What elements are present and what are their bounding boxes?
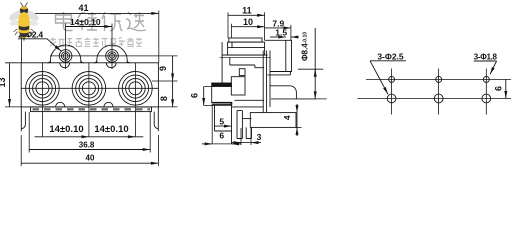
dim 13 ext lines <box>5 63 21 107</box>
dim 3 line <box>231 142 241 144</box>
shell bottom line <box>271 98 317 100</box>
jack J2 circles <box>72 72 106 106</box>
svg-text:41: 41 <box>78 3 88 13</box>
notch under ear right <box>106 63 116 68</box>
ear hole left <box>59 50 72 63</box>
mid body inner steps <box>222 55 268 68</box>
bottom bump left <box>56 102 65 107</box>
mounting ear dome right <box>97 45 127 63</box>
dim 14 bottom lines <box>42 136 89 138</box>
svg-text:6: 6 <box>494 86 504 91</box>
column centerlines <box>392 69 487 115</box>
dim 14 top line <box>66 26 112 28</box>
top tab <box>229 38 262 42</box>
front face lower <box>211 87 213 103</box>
right leg <box>154 107 158 131</box>
dim 41 line <box>21 12 158 14</box>
body bottom line <box>231 100 264 107</box>
svg-text:36.8: 36.8 <box>79 140 95 149</box>
svg-text:6: 6 <box>189 93 199 98</box>
small box on mid body <box>239 69 245 76</box>
notch under ear left <box>60 63 70 68</box>
front pin <box>237 111 242 139</box>
hole small 2 <box>436 76 442 82</box>
jack J3 circles <box>119 72 153 106</box>
dim 41 ext lines <box>21 10 158 62</box>
dim 36.8 ext lines <box>29 112 150 153</box>
body outline <box>21 63 158 107</box>
leg side outline <box>215 105 232 144</box>
dim 7.9 ext <box>290 25 292 40</box>
lower box <box>231 77 245 95</box>
mounting ear dome left <box>50 45 80 63</box>
dim 6 right line <box>505 79 507 98</box>
thick panel bar <box>212 83 232 87</box>
dim 8 line right <box>172 81 174 107</box>
hole small 3 <box>483 76 489 82</box>
dim 6 bottom line <box>202 143 212 145</box>
dim 6 left ext <box>204 87 212 106</box>
dim 9/8 ext lines <box>152 81 178 107</box>
svg-text:3: 3 <box>257 132 262 142</box>
barrel tip ring <box>285 40 287 71</box>
svg-text:14±0.10: 14±0.10 <box>70 17 101 27</box>
svg-text:13: 13 <box>0 77 7 87</box>
label 3-phi2.5 underline and leader <box>370 61 406 95</box>
watermark small text (vector strokes) <box>50 38 142 47</box>
dim 10 ext <box>230 24 232 38</box>
dim 1.5 line <box>270 36 286 38</box>
hole small 1 <box>389 76 395 82</box>
barrel rear ring <box>268 72 291 75</box>
dim phi8.4 arrow top <box>314 69 316 76</box>
dim 7.9 line <box>265 27 291 29</box>
svg-text:3-Φ2.5: 3-Φ2.5 <box>377 51 404 61</box>
upper body block <box>228 42 265 55</box>
svg-text:11: 11 <box>242 6 252 16</box>
watermark big text (vector strokes approximating CJK glyphs) <box>56 12 147 31</box>
bottom terminal strip <box>31 107 152 112</box>
top row line <box>366 78 511 80</box>
dim 14 top ext lines <box>66 24 112 46</box>
dim 11 ext <box>228 12 265 40</box>
flange plate verticals <box>263 51 270 113</box>
ear dome left feet <box>47 61 83 63</box>
side/right view dimension texts <box>189 6 503 143</box>
dim 1.5 right arrow <box>291 36 298 38</box>
dim 40 line <box>21 162 158 164</box>
dim 5 line <box>215 125 232 127</box>
rear terminal block <box>250 113 296 128</box>
horizontal centerline through jacks <box>21 87 158 89</box>
jack J1 vertical centerline <box>41 63 43 137</box>
label 3-phi1.8 underline and leader <box>474 61 497 74</box>
rear pin <box>246 127 251 138</box>
svg-text:40: 40 <box>86 154 95 163</box>
front view dimension texts <box>0 3 169 163</box>
leader 2-phi2.4 <box>18 39 61 52</box>
ear hole right <box>106 50 119 63</box>
jack J2 vertical centerline <box>88 63 90 137</box>
dim 13 line <box>9 63 11 106</box>
leg ext line <box>211 105 213 144</box>
terminal strip dashes <box>33 108 151 110</box>
ear hole right vertical centermark <box>111 46 113 70</box>
dim 4 line <box>296 104 298 113</box>
hole large 1 <box>387 94 396 103</box>
ear hole left vertical centermark <box>65 46 67 70</box>
dim 40 ext lines <box>21 135 158 166</box>
jack J1 circles <box>26 72 60 106</box>
svg-text:8: 8 <box>159 96 169 101</box>
hole large 3 <box>482 94 491 103</box>
svg-text:5: 5 <box>219 116 224 126</box>
jack J3 vertical centerline <box>134 63 136 137</box>
svg-text:Φ8.4-0.10: Φ8.4-0.10 <box>301 32 310 61</box>
svg-text:1.5: 1.5 <box>275 28 287 38</box>
dim 4 ext <box>296 126 302 128</box>
dim 9 line right <box>172 56 174 81</box>
barrel lower shell <box>270 86 297 99</box>
mid body block <box>222 42 228 83</box>
bottom row line <box>358 98 512 100</box>
svg-text:14±0.10: 14±0.10 <box>94 124 128 135</box>
svg-text:10: 10 <box>243 17 253 27</box>
upper body inner lines <box>228 42 265 48</box>
pin link line <box>242 118 251 120</box>
dim 6 left line <box>203 87 205 106</box>
dim 36.8 line <box>29 149 150 151</box>
left leg <box>21 107 25 131</box>
svg-text:4: 4 <box>282 115 292 120</box>
dim 10 line <box>231 26 264 28</box>
svg-text:3-Φ1.8: 3-Φ1.8 <box>474 53 498 62</box>
ear dome right feet <box>94 61 130 63</box>
pin center ext lines <box>241 128 251 145</box>
ear holes horizontal centerline <box>50 55 178 57</box>
hole large 2 <box>434 94 443 103</box>
barrel outline <box>265 40 292 71</box>
svg-text:6: 6 <box>219 131 224 141</box>
dim phi8.4 line <box>314 28 316 99</box>
svg-text:14±0.10: 14±0.10 <box>49 124 83 135</box>
svg-text:9: 9 <box>158 66 168 71</box>
faint mid line <box>220 56 270 58</box>
dim phi8.4 ext lines <box>298 69 327 99</box>
bottom bump right <box>104 102 113 107</box>
dim 14 bottom tails <box>35 136 144 138</box>
leg block side <box>212 103 232 105</box>
bee watermark icon <box>8 3 41 42</box>
dim 11 line <box>228 14 265 16</box>
